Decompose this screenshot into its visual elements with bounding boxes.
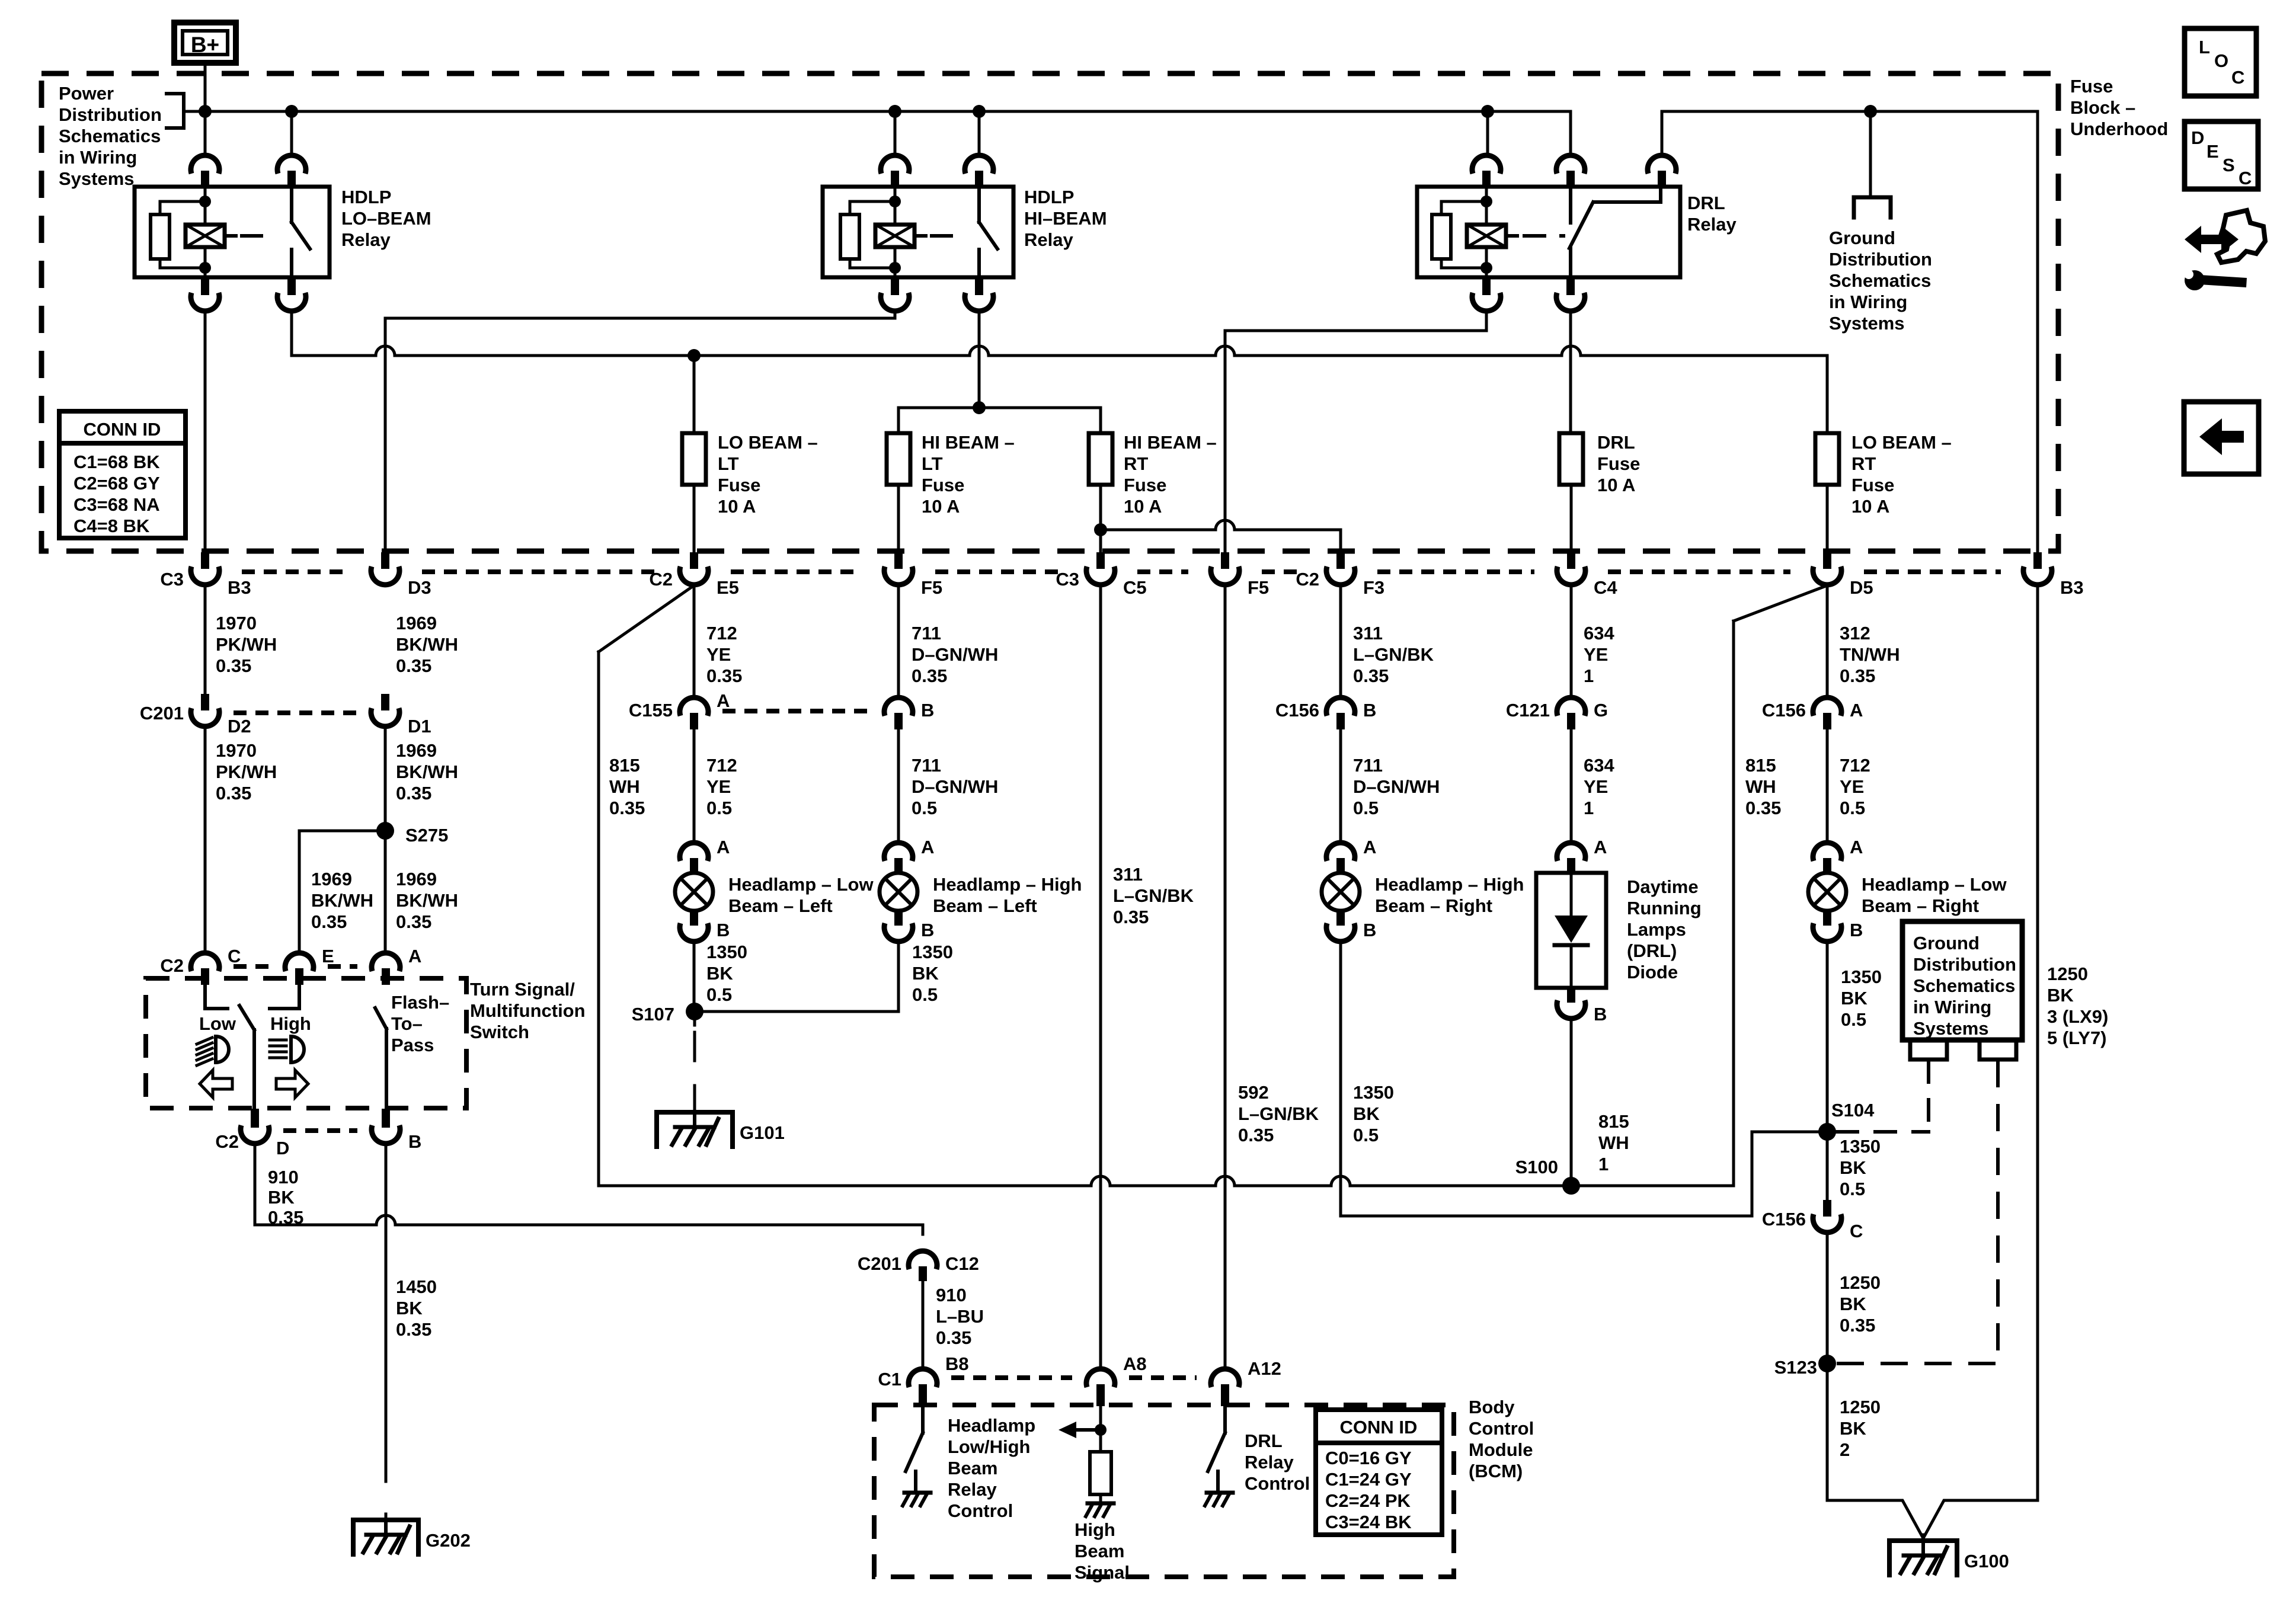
svg-text:1969: 1969 [396, 740, 437, 761]
svg-text:311: 311 [1353, 623, 1383, 644]
svg-text:0.35: 0.35 [396, 1319, 431, 1340]
svg-text:A: A [408, 946, 421, 966]
svg-text:Power: Power [59, 83, 114, 104]
svg-text:YE: YE [1840, 776, 1864, 797]
svg-text:Headlamp: Headlamp [948, 1415, 1035, 1436]
svg-text:711: 711 [912, 623, 941, 644]
svg-text:S104: S104 [1831, 1100, 1875, 1121]
svg-text:0.5: 0.5 [706, 798, 732, 818]
svg-text:910: 910 [936, 1285, 967, 1305]
svg-text:B3: B3 [2060, 577, 2084, 598]
svg-text:1969: 1969 [311, 869, 352, 889]
svg-text:BK/WH: BK/WH [396, 761, 458, 782]
svg-text:712: 712 [1840, 755, 1870, 776]
svg-text:Low: Low [199, 1013, 236, 1034]
svg-text:C1=68 BK: C1=68 BK [73, 452, 160, 472]
svg-text:0.35: 0.35 [1113, 907, 1149, 927]
svg-text:0.5: 0.5 [1840, 798, 1865, 818]
svg-text:B: B [408, 1131, 421, 1152]
svg-text:Distribution: Distribution [59, 104, 162, 125]
svg-text:HDLP: HDLP [341, 187, 391, 207]
svg-text:YE: YE [1584, 644, 1608, 665]
svg-text:C156: C156 [1275, 700, 1319, 721]
svg-text:0.5: 0.5 [912, 984, 938, 1005]
svg-text:Daytime: Daytime [1627, 876, 1699, 897]
svg-text:CONN ID: CONN ID [84, 419, 161, 440]
svg-text:C4: C4 [1594, 577, 1617, 598]
svg-text:C2: C2 [1296, 569, 1319, 590]
svg-text:Headlamp – Low: Headlamp – Low [728, 874, 874, 895]
svg-text:A: A [1594, 837, 1607, 857]
svg-text:1250: 1250 [2047, 964, 2088, 984]
svg-text:S123: S123 [1774, 1357, 1817, 1378]
svg-text:BK: BK [1840, 1294, 1866, 1314]
svg-text:TN/WH: TN/WH [1840, 644, 1900, 665]
svg-text:C156: C156 [1762, 700, 1806, 721]
svg-text:BK: BK [706, 963, 733, 984]
svg-text:E5: E5 [717, 577, 739, 598]
svg-text:in Wiring: in Wiring [59, 147, 137, 168]
svg-text:HI BEAM –: HI BEAM – [922, 432, 1015, 453]
svg-text:BK: BK [1841, 988, 1868, 1009]
svg-text:Low/High: Low/High [948, 1436, 1030, 1457]
svg-text:A12: A12 [1248, 1358, 1281, 1379]
svg-text:CONN ID: CONN ID [1340, 1417, 1418, 1438]
svg-text:BK/WH: BK/WH [311, 890, 373, 911]
svg-text:E: E [2207, 141, 2219, 162]
svg-text:C: C [2239, 168, 2252, 188]
svg-text:0.35: 0.35 [1840, 1315, 1875, 1336]
svg-text:BK: BK [1840, 1157, 1866, 1178]
svg-text:C2: C2 [215, 1131, 239, 1152]
svg-text:C5: C5 [1123, 577, 1147, 598]
svg-text:B8: B8 [945, 1353, 969, 1374]
svg-text:711: 711 [912, 755, 941, 776]
svg-text:PK/WH: PK/WH [216, 761, 277, 782]
svg-text:G100: G100 [1964, 1551, 2009, 1571]
svg-text:WH: WH [1598, 1132, 1629, 1153]
svg-text:1: 1 [1584, 798, 1594, 818]
svg-text:C4=8 BK: C4=8 BK [73, 516, 150, 536]
svg-text:A: A [1850, 837, 1863, 857]
svg-text:B: B [1850, 920, 1863, 940]
svg-text:0.5: 0.5 [1840, 1179, 1865, 1199]
svg-text:Lamps: Lamps [1627, 919, 1686, 940]
svg-text:D3: D3 [408, 577, 431, 598]
svg-text:Flash–: Flash– [391, 992, 449, 1013]
svg-text:Headlamp – High: Headlamp – High [933, 874, 1082, 895]
svg-text:D5: D5 [1850, 577, 1873, 598]
svg-text:Beam – Left: Beam – Left [933, 895, 1037, 916]
svg-text:L–GN/BK: L–GN/BK [1353, 644, 1434, 665]
svg-text:Fuse: Fuse [922, 475, 964, 495]
svg-text:B: B [921, 700, 934, 721]
svg-text:E: E [322, 946, 334, 966]
svg-text:Running: Running [1627, 898, 1702, 918]
svg-text:Fuse: Fuse [2070, 76, 2113, 97]
svg-text:C156: C156 [1762, 1209, 1806, 1230]
svg-text:815: 815 [609, 755, 640, 776]
svg-text:711: 711 [1353, 755, 1383, 776]
svg-text:BK: BK [1353, 1103, 1380, 1124]
svg-text:S275: S275 [405, 825, 448, 846]
svg-text:Schematics: Schematics [59, 126, 161, 146]
svg-text:(DRL): (DRL) [1627, 940, 1677, 961]
svg-text:G: G [1594, 700, 1608, 721]
svg-text:WH: WH [1745, 776, 1776, 797]
svg-text:YE: YE [706, 644, 731, 665]
svg-text:0.35: 0.35 [1840, 665, 1875, 686]
svg-text:0.35: 0.35 [396, 655, 431, 676]
svg-text:G101: G101 [740, 1122, 785, 1143]
svg-text:C155: C155 [629, 700, 673, 721]
svg-text:BK: BK [396, 1298, 423, 1318]
svg-text:in Wiring: in Wiring [1913, 997, 1991, 1017]
svg-text:634: 634 [1584, 623, 1614, 644]
svg-text:C201: C201 [858, 1253, 901, 1274]
svg-text:B: B [717, 920, 730, 940]
svg-text:Headlamp – Low: Headlamp – Low [1862, 874, 2007, 895]
svg-text:F5: F5 [1248, 577, 1269, 598]
svg-text:10 A: 10 A [1597, 475, 1635, 495]
svg-text:Multifunction: Multifunction [470, 1000, 586, 1021]
svg-text:High: High [1075, 1519, 1115, 1540]
svg-text:Relay: Relay [1245, 1452, 1294, 1473]
svg-text:Schematics: Schematics [1913, 975, 2015, 996]
svg-text:A: A [717, 837, 730, 857]
svg-text:Beam – Left: Beam – Left [728, 895, 833, 916]
svg-text:Relay: Relay [341, 229, 391, 250]
svg-text:Underhood: Underhood [2070, 119, 2168, 139]
svg-text:in Wiring: in Wiring [1829, 292, 1907, 312]
svg-text:O: O [2214, 50, 2228, 71]
svg-text:1250: 1250 [1840, 1397, 1881, 1417]
svg-text:Beam: Beam [948, 1458, 997, 1478]
svg-text:B+: B+ [191, 33, 219, 57]
svg-text:Schematics: Schematics [1829, 270, 1931, 291]
svg-text:0.35: 0.35 [216, 783, 251, 804]
svg-text:1350: 1350 [1840, 1136, 1881, 1157]
svg-text:910: 910 [268, 1167, 299, 1188]
svg-text:Systems: Systems [1913, 1018, 1989, 1039]
svg-text:Beam: Beam [1075, 1541, 1124, 1561]
svg-text:PK/WH: PK/WH [216, 634, 277, 655]
svg-text:RT: RT [1851, 453, 1876, 474]
svg-text:C3: C3 [160, 569, 184, 590]
svg-text:F3: F3 [1363, 577, 1384, 598]
svg-text:LT: LT [922, 453, 943, 474]
svg-text:D–GN/WH: D–GN/WH [1353, 776, 1440, 797]
svg-text:Control: Control [1245, 1473, 1310, 1494]
svg-text:C2: C2 [160, 955, 184, 976]
svg-text:B: B [1594, 1004, 1607, 1025]
svg-text:2: 2 [1840, 1439, 1850, 1460]
svg-text:L–GN/BK: L–GN/BK [1113, 885, 1194, 906]
svg-text:592: 592 [1238, 1082, 1269, 1103]
svg-text:HDLP: HDLP [1024, 187, 1074, 207]
svg-text:Relay: Relay [1024, 229, 1073, 250]
svg-text:High: High [270, 1013, 311, 1034]
svg-text:D2: D2 [228, 716, 251, 737]
svg-text:C1: C1 [878, 1369, 901, 1390]
svg-text:311: 311 [1113, 864, 1143, 885]
svg-text:C3=24 BK: C3=24 BK [1325, 1512, 1412, 1532]
svg-text:1: 1 [1598, 1154, 1609, 1174]
svg-text:0.35: 0.35 [706, 665, 742, 686]
svg-text:0.5: 0.5 [1353, 798, 1379, 818]
svg-text:1350: 1350 [1841, 966, 1882, 987]
svg-text:1350: 1350 [1353, 1082, 1394, 1103]
svg-text:D1: D1 [408, 716, 431, 737]
svg-text:10 A: 10 A [1124, 496, 1162, 517]
svg-text:C: C [2231, 67, 2244, 88]
svg-text:Signal: Signal [1075, 1562, 1130, 1583]
svg-text:C1=24 GY: C1=24 GY [1325, 1469, 1412, 1490]
svg-text:1350: 1350 [912, 942, 953, 962]
svg-text:C: C [1850, 1221, 1863, 1241]
svg-text:0.5: 0.5 [912, 798, 937, 818]
svg-text:C2=24 PK: C2=24 PK [1325, 1490, 1411, 1511]
svg-text:Relay: Relay [1687, 214, 1737, 235]
svg-text:S: S [2223, 155, 2235, 175]
svg-text:Beam – Right: Beam – Right [1375, 895, 1492, 916]
svg-text:0.35: 0.35 [912, 665, 947, 686]
svg-text:LO–BEAM: LO–BEAM [341, 208, 431, 229]
svg-text:D: D [276, 1138, 289, 1158]
svg-text:Diode: Diode [1627, 962, 1678, 982]
svg-text:BK/WH: BK/WH [396, 890, 458, 911]
svg-text:BK: BK [268, 1187, 295, 1208]
svg-text:LT: LT [718, 453, 739, 474]
svg-text:DRL: DRL [1687, 193, 1725, 213]
svg-text:5 (LY7): 5 (LY7) [2047, 1028, 2107, 1048]
svg-text:Systems: Systems [1829, 313, 1905, 334]
svg-text:C2=68 GY: C2=68 GY [73, 473, 160, 494]
svg-text:1: 1 [1584, 665, 1594, 686]
svg-text:L: L [2199, 37, 2210, 57]
svg-text:Beam – Right: Beam – Right [1862, 895, 1979, 916]
svg-text:C2: C2 [649, 569, 673, 590]
svg-text:0.35: 0.35 [1353, 665, 1389, 686]
svg-text:C3=68 NA: C3=68 NA [73, 494, 160, 515]
svg-text:DRL: DRL [1245, 1430, 1283, 1451]
svg-text:DRL: DRL [1597, 432, 1635, 453]
svg-text:0.35: 0.35 [609, 798, 645, 818]
svg-text:L–BU: L–BU [936, 1306, 984, 1327]
svg-text:Body: Body [1469, 1397, 1515, 1417]
svg-text:S100: S100 [1515, 1157, 1558, 1177]
svg-text:C121: C121 [1506, 700, 1550, 721]
svg-text:Systems: Systems [59, 168, 135, 189]
svg-text:712: 712 [706, 623, 737, 644]
svg-text:0.35: 0.35 [1238, 1125, 1274, 1145]
svg-text:A: A [717, 690, 730, 711]
svg-text:0.35: 0.35 [936, 1327, 971, 1348]
svg-text:Control: Control [1469, 1418, 1534, 1439]
svg-text:A: A [1363, 837, 1376, 857]
svg-text:(BCM): (BCM) [1469, 1461, 1523, 1481]
svg-text:BK: BK [1840, 1418, 1866, 1439]
svg-text:BK/WH: BK/WH [396, 634, 458, 655]
svg-text:Block –: Block – [2070, 97, 2135, 118]
svg-text:0.5: 0.5 [1841, 1009, 1866, 1030]
svg-text:LO BEAM –: LO BEAM – [718, 432, 818, 453]
svg-text:D: D [2191, 127, 2204, 148]
svg-text:0.5: 0.5 [1353, 1125, 1379, 1145]
svg-text:Distribution: Distribution [1829, 249, 1932, 270]
svg-text:1969: 1969 [396, 613, 437, 633]
svg-text:C: C [228, 946, 241, 966]
svg-text:B3: B3 [228, 577, 251, 598]
svg-text:B: B [1363, 920, 1376, 940]
svg-text:0.5: 0.5 [706, 984, 732, 1005]
svg-text:Ground: Ground [1829, 228, 1895, 248]
svg-text:Switch: Switch [470, 1022, 529, 1042]
svg-text:Fuse: Fuse [718, 475, 760, 495]
svg-text:C12: C12 [945, 1253, 979, 1274]
svg-text:0.35: 0.35 [1745, 798, 1781, 818]
svg-text:Relay: Relay [948, 1479, 997, 1500]
svg-text:HI–BEAM: HI–BEAM [1024, 208, 1107, 229]
svg-text:10 A: 10 A [922, 496, 960, 517]
svg-text:0.35: 0.35 [396, 911, 431, 932]
svg-text:1970: 1970 [216, 613, 257, 633]
svg-text:L–GN/BK: L–GN/BK [1238, 1103, 1319, 1124]
svg-text:1970: 1970 [216, 740, 257, 761]
svg-text:A: A [1850, 700, 1863, 721]
svg-text:815: 815 [1745, 755, 1776, 776]
svg-text:712: 712 [706, 755, 737, 776]
svg-text:Fuse: Fuse [1597, 453, 1640, 474]
svg-text:BK: BK [912, 963, 939, 984]
svg-text:0.35: 0.35 [311, 911, 347, 932]
svg-text:Pass: Pass [391, 1035, 434, 1055]
svg-text:Headlamp – High: Headlamp – High [1375, 874, 1524, 895]
svg-text:A8: A8 [1123, 1353, 1147, 1374]
svg-text:0.35: 0.35 [396, 783, 431, 804]
svg-text:Control: Control [948, 1500, 1013, 1521]
svg-text:G202: G202 [426, 1530, 471, 1551]
svg-text:S107: S107 [632, 1004, 674, 1025]
svg-text:B: B [921, 920, 934, 940]
svg-text:BK: BK [2047, 985, 2074, 1006]
svg-text:LO BEAM –: LO BEAM – [1851, 432, 1952, 453]
svg-text:D–GN/WH: D–GN/WH [912, 776, 998, 797]
svg-text:10 A: 10 A [718, 496, 756, 517]
svg-text:B: B [1363, 700, 1376, 721]
svg-text:C0=16 GY: C0=16 GY [1325, 1448, 1412, 1468]
svg-text:F5: F5 [921, 577, 942, 598]
svg-text:634: 634 [1584, 755, 1614, 776]
svg-text:Turn Signal/: Turn Signal/ [470, 979, 575, 1000]
svg-text:A: A [921, 837, 934, 857]
svg-text:RT: RT [1124, 453, 1148, 474]
svg-text:HI BEAM –: HI BEAM – [1124, 432, 1217, 453]
svg-text:10 A: 10 A [1851, 496, 1889, 517]
svg-text:1350: 1350 [706, 942, 747, 962]
svg-text:312: 312 [1840, 623, 1870, 644]
svg-text:C3: C3 [1056, 569, 1079, 590]
svg-text:Ground: Ground [1913, 933, 1980, 953]
svg-text:YE: YE [1584, 776, 1608, 797]
svg-text:1450: 1450 [396, 1276, 437, 1297]
svg-text:To–: To– [391, 1013, 423, 1034]
svg-text:YE: YE [706, 776, 731, 797]
svg-text:3 (LX9): 3 (LX9) [2047, 1006, 2108, 1027]
svg-text:0.35: 0.35 [216, 655, 251, 676]
svg-text:Fuse: Fuse [1124, 475, 1166, 495]
svg-text:C201: C201 [140, 703, 184, 724]
svg-text:1250: 1250 [1840, 1272, 1881, 1293]
svg-text:WH: WH [609, 776, 640, 797]
svg-text:1969: 1969 [396, 869, 437, 889]
svg-text:815: 815 [1598, 1111, 1629, 1132]
svg-text:D–GN/WH: D–GN/WH [912, 644, 998, 665]
svg-text:Fuse: Fuse [1851, 475, 1894, 495]
svg-text:Distribution: Distribution [1913, 954, 2016, 975]
svg-text:Module: Module [1469, 1439, 1533, 1460]
